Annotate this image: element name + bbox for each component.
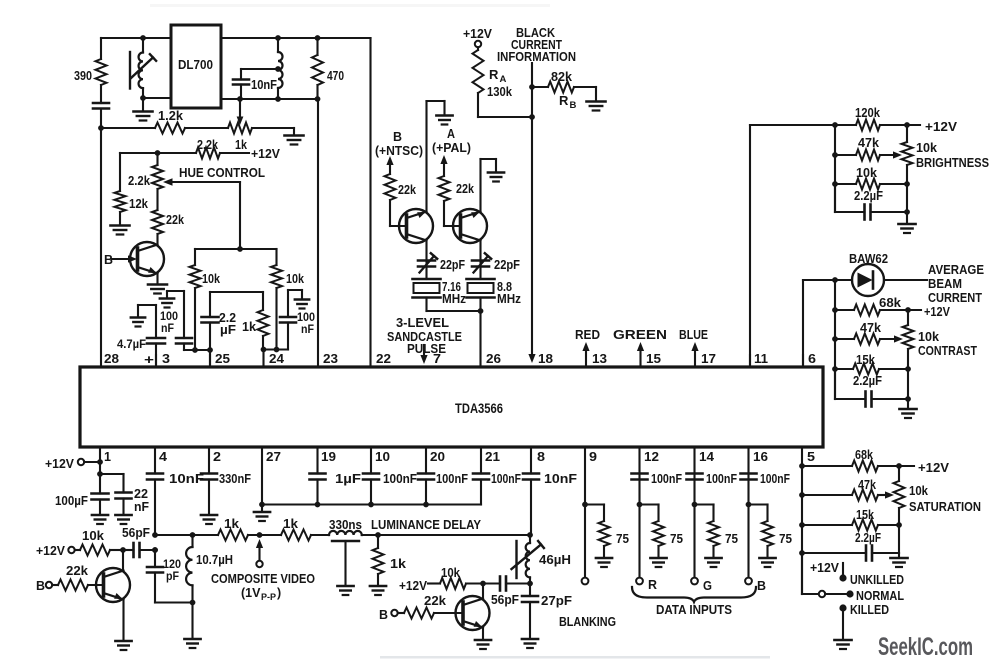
wire pin 12 R input [636, 447, 657, 592]
svg-text:10k: 10k [909, 484, 928, 498]
delay line shield [332, 541, 359, 585]
resistor 47k saturation [802, 478, 894, 501]
transistor NTSC oscillator [399, 209, 433, 243]
svg-text:14: 14 [699, 449, 715, 464]
capacitor 10nF pin 4 [147, 447, 204, 535]
resistor 68k contrast [835, 296, 951, 319]
svg-text:KILLED: KILLED [850, 603, 889, 617]
ground 75 pin 9 [596, 558, 612, 567]
ground 22nF [115, 515, 131, 524]
capacitor 4.7uF pin 3 [117, 305, 165, 367]
svg-text:+12V: +12V [924, 305, 951, 319]
svg-text:5: 5 [807, 449, 815, 464]
svg-text:330nF: 330nF [219, 472, 251, 486]
svg-text:75: 75 [616, 532, 629, 546]
inductor right coil [275, 35, 282, 102]
ground brightness [898, 212, 915, 233]
transistor PAL oscillator [453, 209, 487, 243]
label black current information [497, 26, 576, 64]
wire top-left rail [101, 37, 371, 39]
svg-text:): ) [277, 586, 281, 600]
pin labels bottom row [104, 449, 815, 464]
svg-text:COMPOSITE VIDEO: COMPOSITE VIDEO [211, 572, 315, 586]
svg-text:nF: nF [301, 324, 314, 336]
svg-text:100: 100 [160, 311, 178, 323]
svg-text:CONTRAST: CONTRAST [918, 344, 977, 358]
svg-text:MHz: MHz [442, 292, 466, 306]
IC TDA3566 body [80, 367, 823, 447]
wire +12V hue row [120, 147, 281, 161]
delay line DL700 [171, 25, 221, 108]
svg-text:10.7µH: 10.7µH [196, 553, 233, 567]
ground 27pF [522, 639, 538, 648]
capacitor 100nF pin 16 [741, 472, 791, 486]
svg-text:MHz: MHz [497, 292, 521, 306]
svg-text:18: 18 [538, 351, 553, 366]
svg-text:+12V: +12V [810, 561, 840, 575]
svg-text:10k: 10k [441, 566, 460, 580]
svg-text:2.2µF: 2.2µF [855, 531, 881, 545]
pin labels top row [104, 351, 816, 366]
svg-text:100nF: 100nF [436, 472, 468, 486]
svg-text:22pF: 22pF [494, 258, 520, 272]
svg-text:10k: 10k [202, 272, 220, 286]
terminal +12V 10k input [36, 544, 80, 558]
wire luminance row [152, 532, 218, 538]
svg-text:1.2k: 1.2k [158, 109, 183, 123]
svg-text:100nF: 100nF [383, 472, 417, 486]
svg-text:1k: 1k [235, 138, 247, 152]
svg-text:27pF: 27pF [541, 594, 572, 608]
resistor 1.2k [101, 109, 185, 134]
label A PAL [432, 127, 471, 155]
svg-text:1k: 1k [224, 517, 239, 531]
resistor 10k second [440, 566, 486, 589]
svg-text:28: 28 [104, 351, 119, 366]
svg-text:1k: 1k [390, 557, 406, 571]
svg-text:P-P: P-P [261, 592, 276, 602]
resistor 15k contrast [835, 353, 911, 375]
svg-text:+12V: +12V [45, 457, 75, 471]
wire pin 1 vertical [97, 447, 103, 494]
svg-text:RED: RED [575, 328, 600, 342]
svg-text:46µH: 46µH [539, 553, 571, 567]
svg-text:A: A [447, 127, 455, 141]
svg-text:R: R [648, 578, 657, 592]
resistor 390 [74, 59, 107, 85]
svg-text:68k: 68k [879, 296, 901, 310]
wire pin 23 vertical [317, 99, 319, 367]
svg-text:LUMINANCE DELAY: LUMINANCE DELAY [371, 518, 482, 532]
wire PAL collector to ground elbow [481, 159, 497, 212]
wire pin 27 with ground [259, 447, 265, 511]
arrow input B [386, 156, 393, 174]
svg-text:22pF: 22pF [440, 258, 465, 272]
svg-text:11: 11 [754, 351, 768, 366]
node composite video [248, 532, 281, 538]
svg-text:10k: 10k [916, 141, 937, 155]
svg-text:75: 75 [779, 532, 792, 546]
svg-text:+: + [144, 352, 155, 367]
wire branch to 22nF [100, 474, 124, 493]
contact killed [839, 603, 889, 639]
wire left vertical to pin 28 [100, 38, 102, 367]
input B second transistor [379, 608, 404, 622]
svg-text:10nF: 10nF [169, 472, 204, 486]
svg-text:56pF: 56pF [491, 593, 519, 607]
wire pin 14 G input [691, 447, 712, 593]
svg-text:AVERAGE: AVERAGE [928, 263, 984, 277]
svg-text:23: 23 [323, 351, 338, 366]
svg-text:+12V: +12V [925, 120, 958, 134]
svg-text:22k: 22k [66, 564, 88, 578]
diode BAW62 [832, 252, 927, 296]
svg-text:(1V: (1V [241, 586, 261, 600]
svg-text:47k: 47k [858, 478, 876, 492]
contact normal [846, 589, 904, 603]
resistor 12k [115, 153, 149, 224]
svg-text:27: 27 [266, 449, 281, 464]
svg-text:20: 20 [430, 449, 445, 464]
resistor 22k input [58, 564, 104, 591]
capacitor below 390 [93, 103, 109, 109]
wire 22k to base NTSC [390, 200, 407, 226]
capacitor 56pF second [483, 577, 530, 608]
terminal +12V RA [463, 27, 493, 50]
resistor 1k luminance left [218, 517, 248, 541]
svg-text:120k: 120k [855, 106, 880, 120]
ground under 12k [111, 226, 130, 235]
transistor hue B [130, 234, 164, 283]
capacitor 100nF pin 21 [473, 447, 521, 505]
svg-text:47k: 47k [860, 321, 881, 335]
resistor 1k luminance right [281, 517, 311, 541]
svg-text:82k: 82k [551, 70, 572, 84]
svg-text:1k: 1k [242, 320, 256, 334]
svg-text:22k: 22k [166, 213, 184, 227]
resistor 82k RB [532, 70, 596, 111]
contrast left bus [832, 280, 838, 399]
svg-text:3: 3 [162, 351, 170, 366]
node 56pF collector [120, 547, 126, 568]
ground 75 pin 12 [650, 558, 666, 567]
ground 75 pin 16 [759, 558, 775, 567]
svg-text:BLUE: BLUE [679, 328, 708, 342]
svg-text:22k: 22k [424, 594, 446, 608]
resistor 10k left [190, 249, 221, 350]
svg-text:330ns: 330ns [329, 518, 362, 532]
inductor 330ns delay line [311, 518, 531, 535]
svg-text:1: 1 [104, 449, 111, 464]
wire pin 11 to brightness [750, 125, 835, 367]
capacitor 2.2uF pin 25 [202, 292, 264, 367]
capacitor 22nF [116, 487, 150, 514]
inductor 10.7uH [186, 535, 233, 603]
svg-text:B: B [393, 130, 402, 144]
capacitor 120pF [147, 547, 181, 602]
svg-text:2.2k: 2.2k [128, 174, 150, 188]
svg-text:B: B [379, 608, 388, 622]
brace data inputs [632, 587, 756, 617]
resistor 22k PAL [439, 176, 475, 201]
ground under hue transistor [148, 285, 167, 294]
ground PAL collector [488, 173, 504, 182]
switch pole normal [802, 553, 846, 597]
resistor RA 130k [473, 50, 513, 99]
svg-text:68k: 68k [855, 448, 873, 462]
ground 4.7uF [131, 318, 145, 327]
ground 10.7uH [184, 639, 200, 648]
hue control wiper arrow [163, 166, 265, 249]
wire emitter to ground [122, 600, 124, 641]
svg-text:CURRENT: CURRENT [928, 291, 982, 305]
svg-text:BLANKING: BLANKING [559, 615, 616, 629]
svg-text:G: G [703, 579, 712, 593]
resistor 10k brightness lower [835, 166, 910, 190]
capacitor 2.2uF saturation [802, 531, 899, 561]
resistor 22k NTSC [385, 174, 417, 200]
node 1.2k row left [98, 125, 104, 131]
svg-text:2.2µF: 2.2µF [854, 189, 883, 203]
inductor tuned coil with slug [130, 38, 156, 89]
brightness left bus [832, 122, 838, 212]
svg-text:390: 390 [74, 69, 92, 83]
trimmer 22pF NTSC [418, 241, 465, 280]
svg-text:10: 10 [375, 449, 390, 464]
wire NTSC collector to ground elbow [427, 101, 445, 212]
resistor 2.2k horizontal [196, 148, 220, 159]
svg-text:nF: nF [134, 500, 149, 514]
transistor blanking [456, 584, 490, 640]
svg-text:NORMAL: NORMAL [856, 589, 904, 603]
svg-text:13: 13 [592, 351, 607, 366]
ground 100nF left [160, 299, 174, 308]
resistor 22k hue [152, 189, 184, 234]
ground saturation [890, 553, 907, 567]
svg-text:B: B [570, 100, 577, 111]
wire 22k to base PAL [444, 201, 461, 226]
saturation left bus pin 5 [799, 447, 805, 594]
resistor 1k pot [185, 123, 294, 153]
capacitor 10nF top-left [233, 69, 278, 99]
resistor 1k pin 24 [242, 292, 269, 350]
svg-text:1k: 1k [283, 517, 298, 531]
terminal +12V pin 1 [45, 457, 103, 471]
arrow composite video input [211, 539, 315, 602]
wire pin 16 B input [745, 447, 766, 593]
resistor 47k brightness [835, 136, 902, 161]
svg-text:12k: 12k [129, 197, 148, 211]
potentiometer 10k contrast [903, 310, 978, 399]
capacitor 330nF pin 2 [201, 447, 251, 514]
svg-text:B: B [36, 579, 45, 593]
svg-text:22k: 22k [398, 183, 416, 197]
label B NTSC [375, 130, 423, 158]
resistor 75 pin 14 [695, 505, 739, 558]
svg-text:15k: 15k [856, 508, 874, 522]
wire crystals to pin 26 [427, 308, 484, 367]
arrow pin 7 [420, 345, 427, 364]
wire pin 25 bottom [184, 347, 213, 353]
svg-text:3-LEVEL: 3-LEVEL [396, 316, 449, 330]
svg-text:12: 12 [644, 449, 659, 464]
svg-text:R: R [559, 93, 569, 108]
wire 10k pair top [195, 246, 277, 252]
input B hue [104, 253, 137, 267]
capacitor 100uF [55, 494, 109, 515]
svg-text:100nF: 100nF [491, 472, 521, 486]
svg-text:16: 16 [753, 449, 768, 464]
svg-text:6: 6 [808, 351, 816, 366]
resistor 68k saturation [802, 448, 950, 475]
capacitor 100nF pin 10 [363, 447, 417, 505]
capacitor 27pF [522, 581, 572, 638]
potentiometer 10k brightness [902, 125, 990, 212]
wire pin 9 blanking [559, 447, 616, 629]
svg-text:UNKILLED: UNKILLED [850, 573, 904, 587]
ground input transistor [115, 641, 131, 650]
svg-text:10nF: 10nF [544, 472, 577, 486]
svg-text:BEAM: BEAM [928, 277, 962, 291]
ground under coil [134, 112, 153, 121]
wire 120pF 10.7uH junction [155, 600, 195, 638]
trimmer 22pF PAL [472, 241, 520, 280]
resistor 75 pin 9 [585, 505, 629, 558]
label BLUE arrow pin 17 [679, 328, 708, 367]
svg-text:9: 9 [589, 449, 597, 464]
svg-text:15k: 15k [856, 353, 875, 367]
svg-text:4.7µF: 4.7µF [117, 337, 146, 351]
label average beam current [928, 263, 984, 305]
svg-text:+12V: +12V [463, 27, 493, 41]
svg-text:SeekIC.com: SeekIC.com [878, 633, 973, 661]
resistor 120k [835, 106, 958, 134]
node coil top [140, 35, 146, 41]
wire DL700 right bottom rail [221, 98, 318, 100]
ground RB [587, 102, 606, 111]
capacitor 100nF pin 12 [632, 472, 683, 486]
resistor 47k contrast [835, 321, 903, 345]
svg-text:DL700: DL700 [178, 58, 213, 72]
ground 100nF right [295, 300, 309, 309]
ground delay shield [337, 586, 353, 595]
capacitor 100nF pin 25 left [160, 291, 192, 350]
ground A PAL [436, 116, 452, 125]
svg-text:22k: 22k [456, 182, 474, 196]
svg-text:100: 100 [297, 312, 315, 324]
svg-text:10k: 10k [82, 529, 104, 543]
crystal 8.8 MHz [467, 279, 522, 311]
arrow input A [440, 155, 447, 176]
capacitor 56pF input [122, 526, 158, 557]
svg-text:(+NTSC): (+NTSC) [375, 144, 423, 158]
ground 330nF [201, 515, 217, 524]
svg-text:+12V: +12V [918, 461, 950, 475]
svg-text:15: 15 [646, 351, 661, 366]
ground blanking transistor [475, 640, 491, 649]
svg-text:+12V: +12V [251, 147, 281, 161]
svg-text:2.2µF: 2.2µF [853, 374, 882, 388]
svg-text:pF: pF [166, 569, 179, 583]
svg-text:10k: 10k [918, 330, 939, 344]
svg-text:B: B [757, 579, 766, 593]
svg-text:(+PAL): (+PAL) [432, 141, 471, 155]
pin stubs top short [156, 355, 803, 367]
svg-text:100µF: 100µF [55, 494, 88, 508]
svg-text:100nF: 100nF [651, 472, 682, 486]
svg-text:nF: nF [161, 323, 174, 335]
svg-text:BRIGHTNESS: BRIGHTNESS [916, 156, 989, 170]
svg-text:25: 25 [215, 351, 230, 366]
transistor video input [96, 568, 130, 602]
wire pot wiper arrow to 1k [237, 96, 244, 125]
svg-text:+12V: +12V [399, 579, 428, 593]
svg-text:100nF: 100nF [760, 472, 790, 486]
svg-text:26: 26 [486, 351, 501, 366]
svg-text:BAW62: BAW62 [849, 252, 888, 266]
crystal 7.16 MHz [413, 279, 467, 311]
svg-text:2: 2 [213, 449, 221, 464]
ground 1k shunt [370, 586, 386, 595]
resistor 470 [312, 35, 344, 102]
resistor 22k second [404, 594, 463, 619]
svg-text:21: 21 [485, 449, 500, 464]
svg-text:A: A [500, 74, 507, 85]
terminal +12V unkilled [810, 561, 843, 575]
svg-text:HUE CONTROL: HUE CONTROL [179, 166, 265, 180]
ground 100uF [92, 515, 108, 524]
resistor 10k right [271, 249, 304, 350]
inductor 46uH [512, 532, 572, 583]
wire pin 22 vertical [369, 38, 371, 367]
label 3-level sandcastle pulse [387, 316, 462, 356]
svg-text:56pF: 56pF [122, 526, 150, 540]
ground killed [834, 640, 851, 649]
svg-text:1µF: 1µF [335, 472, 361, 486]
ground pin 27 [254, 512, 270, 521]
wire pin 18 vertical [528, 63, 535, 363]
svg-text:100nF: 100nF [706, 472, 737, 486]
svg-text:TDA3566: TDA3566 [455, 401, 503, 416]
svg-text:10nF: 10nF [251, 78, 277, 92]
wire RA bottom to pin18 line [478, 93, 535, 120]
capacitor 100nF pin 20 [418, 447, 468, 505]
svg-text:47k: 47k [858, 136, 879, 150]
capacitor 1uF pin 19 [310, 447, 362, 505]
svg-text:µF: µF [220, 323, 236, 337]
svg-text:GREEN: GREEN [613, 328, 667, 342]
capacitor 2.2uF contrast [835, 369, 911, 407]
svg-text:+12V: +12V [36, 544, 66, 558]
svg-text:75: 75 [725, 532, 738, 546]
wire pin 24 bottom [261, 347, 288, 367]
svg-text:R: R [489, 67, 499, 82]
wire pin 6 to contrast [803, 280, 835, 367]
svg-text:10k: 10k [286, 272, 304, 286]
label GREEN arrow pin 15 [613, 328, 667, 367]
svg-text:22: 22 [376, 351, 391, 366]
label RED arrow pin 13 [575, 328, 600, 367]
wire cap ground rail [262, 502, 481, 508]
svg-text:8: 8 [537, 449, 545, 464]
svg-text:4: 4 [159, 449, 168, 464]
svg-text:SATURATION: SATURATION [909, 500, 981, 514]
resistor 15k saturation [802, 508, 902, 531]
ground right of 1k [285, 136, 304, 145]
ground contrast [899, 399, 916, 418]
svg-text:10k: 10k [856, 166, 877, 180]
svg-text:INFORMATION: INFORMATION [497, 50, 576, 64]
